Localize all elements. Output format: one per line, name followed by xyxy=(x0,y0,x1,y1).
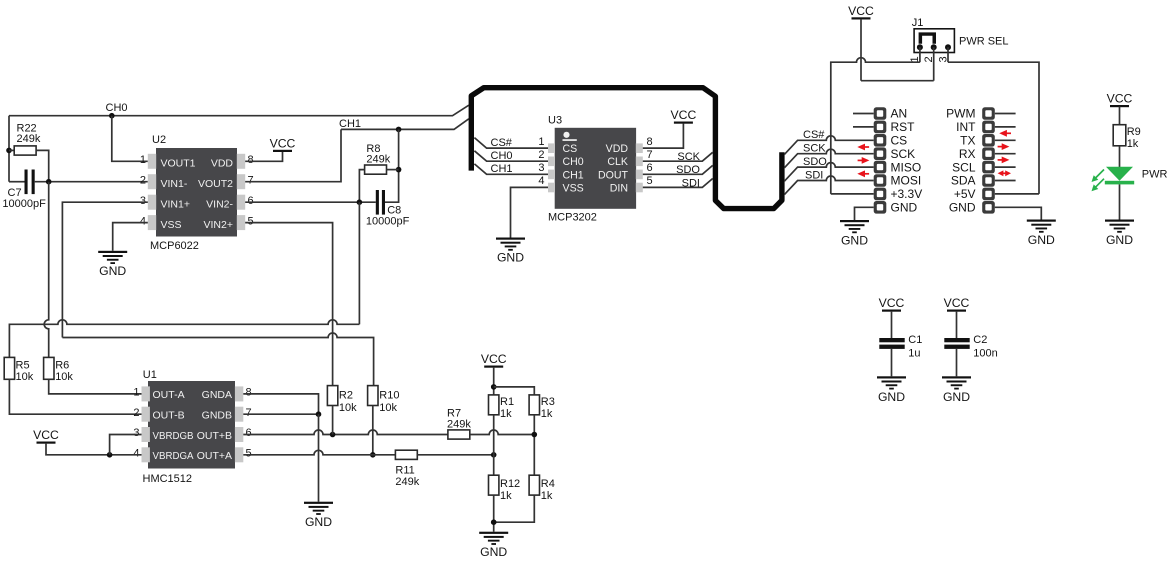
svg-text:CS: CS xyxy=(891,134,908,148)
junction VBRDG xyxy=(107,452,113,458)
svg-text:7: 7 xyxy=(248,174,254,186)
wire C1 to GND xyxy=(891,349,893,376)
wire U2 pin3 VIN1+ left down xyxy=(62,202,147,337)
wire CH1 from bus to U3 pin3 xyxy=(474,164,548,174)
svg-text:GND: GND xyxy=(841,234,868,248)
header HD1 left pads xyxy=(874,107,887,213)
arrow MISO out xyxy=(858,157,870,164)
wire GND net down xyxy=(318,414,320,502)
svg-text:CH0: CH0 xyxy=(563,156,584,168)
svg-text:VOUT2: VOUT2 xyxy=(198,178,233,190)
junction R8 right xyxy=(396,167,402,173)
bus SPI thick xyxy=(471,88,782,209)
svg-text:MCP3202: MCP3202 xyxy=(548,212,597,224)
junction VIN2- node xyxy=(357,199,363,205)
svg-text:SDI: SDI xyxy=(805,169,823,181)
svg-text:8: 8 xyxy=(246,387,252,399)
svg-text:VBRDGB: VBRDGB xyxy=(153,430,194,442)
arrow TX (right) xyxy=(998,143,1010,150)
svg-text:VCC: VCC xyxy=(1107,92,1133,106)
wire U1 pin8 GNDA down xyxy=(243,394,318,414)
ground U2 xyxy=(98,251,127,264)
wire VCC down to lower rail xyxy=(860,19,862,81)
resistor R7 xyxy=(448,430,470,439)
svg-text:VCC: VCC xyxy=(848,4,874,18)
svg-text:SCL: SCL xyxy=(952,160,976,174)
svg-text:249k: 249k xyxy=(447,419,471,431)
ground U1 xyxy=(304,502,333,515)
ground C1 xyxy=(877,376,906,389)
svg-text:PWR: PWR xyxy=(1142,169,1168,181)
svg-text:CH1: CH1 xyxy=(491,163,513,175)
arrow INT out (left) xyxy=(999,130,1011,137)
svg-text:3: 3 xyxy=(133,427,139,439)
wire R22 left xyxy=(9,149,14,151)
SECTION: adc bus xyxy=(471,88,873,265)
junction GND net xyxy=(316,411,322,417)
wire VCC to R9 xyxy=(1119,107,1121,125)
svg-text:VIN1-: VIN1- xyxy=(161,178,188,190)
svg-text:10k: 10k xyxy=(16,371,34,383)
arrow SCL (both) xyxy=(998,170,1011,176)
wire R3 bottom to R4 top xyxy=(533,415,535,475)
wire U3 pin5 SDI to bus xyxy=(643,179,713,188)
svg-text:AN: AN xyxy=(891,107,908,121)
arrow MOSI in xyxy=(857,170,869,177)
svg-text:R9: R9 xyxy=(1127,126,1141,138)
resistor R8 xyxy=(365,165,387,174)
wire vertical C7 node down to R6 (hop at y=324.3) xyxy=(44,182,49,358)
svg-text:OUT-B: OUT-B xyxy=(153,410,185,422)
wire VCC to C1 xyxy=(891,311,893,338)
svg-text:PWM: PWM xyxy=(946,107,975,121)
svg-text:4: 4 xyxy=(140,215,146,227)
svg-text:R5: R5 xyxy=(16,360,30,372)
svg-text:VOUT1: VOUT1 xyxy=(161,158,196,170)
svg-text:MCP6022: MCP6022 xyxy=(150,240,199,252)
capacitor C2 xyxy=(944,338,969,342)
wire C2 to GND xyxy=(956,349,958,376)
svg-text:VDD: VDD xyxy=(211,158,234,170)
wire VCC to U1 pin4 xyxy=(46,443,142,455)
wire U1 pin5 OUT+A to R11 (hop at 318.5) xyxy=(243,450,395,455)
junction R22 left xyxy=(6,148,12,154)
svg-text:5: 5 xyxy=(248,215,254,227)
svg-text:10000pF: 10000pF xyxy=(2,198,46,210)
resistor R4 xyxy=(529,475,539,495)
J1 pin 3 pad xyxy=(945,44,951,50)
LED PWR cathode bar xyxy=(1105,181,1134,185)
svg-text:GND: GND xyxy=(878,390,905,404)
svg-text:C2: C2 xyxy=(973,334,987,346)
wire J1 pin2 down xyxy=(933,47,935,80)
svg-text:1k: 1k xyxy=(500,408,512,420)
wire VCC to C2 xyxy=(956,311,958,338)
resistor R11 xyxy=(395,450,417,459)
capacitor C7 xyxy=(25,170,28,195)
wire PWM stub xyxy=(995,113,1016,115)
svg-text:MISO: MISO xyxy=(891,160,922,174)
LED PWR triangle xyxy=(1106,167,1133,181)
junction R10 bottom xyxy=(370,452,376,458)
wire 3.3V to pad xyxy=(831,193,874,195)
ground LED xyxy=(1105,220,1134,233)
svg-text:SCK: SCK xyxy=(677,151,700,163)
wire R1 bottom to R12 top xyxy=(493,415,495,475)
svg-text:10k: 10k xyxy=(55,371,73,383)
svg-text:SDI: SDI xyxy=(682,177,700,189)
svg-text:R11: R11 xyxy=(395,465,414,477)
wire RX stub xyxy=(995,153,1016,155)
wire HD1 GND to ground xyxy=(855,207,874,220)
svg-text:DIN: DIN xyxy=(610,182,628,194)
J1 pin 1 pad xyxy=(917,44,923,50)
svg-text:CH0: CH0 xyxy=(491,150,513,162)
SECTION: headers right xyxy=(831,4,1056,248)
svg-text:SDO: SDO xyxy=(803,156,827,168)
svg-text:SDO: SDO xyxy=(676,164,700,176)
resistor R3 xyxy=(529,395,539,415)
wire U2 pin4 VSS to GND xyxy=(113,223,148,251)
LED light arrow 2 xyxy=(1092,179,1105,192)
junction R2 bottom xyxy=(330,432,336,438)
J1 pin 2 pad xyxy=(931,44,937,50)
svg-text:GNDB: GNDB xyxy=(202,410,232,422)
svg-text:+3.3V: +3.3V xyxy=(891,187,923,201)
svg-text:1: 1 xyxy=(140,154,146,166)
wire VCC branch to U1 pin3 xyxy=(110,435,142,455)
svg-text:GND: GND xyxy=(943,390,970,404)
svg-text:VSS: VSS xyxy=(563,182,584,194)
svg-text:7: 7 xyxy=(246,407,252,419)
junction R1R12 node xyxy=(491,452,497,458)
svg-text:249k: 249k xyxy=(366,153,390,165)
svg-text:+5V: +5V xyxy=(954,187,976,201)
wire TX stub xyxy=(995,139,1016,141)
wire 5V to pad xyxy=(995,193,1039,195)
junction R12/R4 bottom xyxy=(491,519,497,525)
power VCC (J1) xyxy=(852,17,871,19)
svg-text:4: 4 xyxy=(133,448,139,460)
svg-text:VIN1+: VIN1+ xyxy=(161,198,190,210)
svg-text:VSS: VSS xyxy=(161,219,182,231)
svg-text:CLK: CLK xyxy=(607,156,628,168)
wire CH0 horizontal xyxy=(9,105,469,116)
wire C7 row xyxy=(9,181,25,183)
svg-text:GND: GND xyxy=(891,201,918,215)
wire U1 pin6 OUT+B to R7 (hops at 318.5 and 372.8) xyxy=(243,430,448,435)
svg-text:CH1: CH1 xyxy=(563,169,584,181)
svg-text:GND: GND xyxy=(497,251,524,265)
power VCC (divider) xyxy=(484,366,503,368)
SECTION: amplifier left xyxy=(2,102,468,386)
power VCC (U1 bridge) xyxy=(37,442,56,444)
wire SDA stub xyxy=(995,180,1016,182)
svg-text:8: 8 xyxy=(647,136,653,148)
wire U2 pin7 VOUT2 to CH1 xyxy=(245,129,341,181)
wire R5 bottom to U1 pin2 xyxy=(9,379,141,414)
wire R11 right to R1R12 node xyxy=(417,454,493,456)
LED light arrow 1 xyxy=(1092,170,1105,183)
wire CS# bus to header xyxy=(784,136,873,155)
wire U2 pin5 VIN2+ right down to R2 xyxy=(245,223,332,386)
wire horizontal2 VIN1+ net (hop at 332.6) to R10 xyxy=(62,333,373,386)
wire U3 pin8 VDD to VCC xyxy=(643,124,684,149)
wire SCK bus to header xyxy=(784,149,873,168)
wire U3 pin6 SDO to bus xyxy=(643,165,713,174)
svg-text:RX: RX xyxy=(959,147,976,161)
SECTION: bridge bottom xyxy=(4,352,555,559)
svg-text:R2: R2 xyxy=(339,390,353,402)
wire CH1 horizontal xyxy=(341,119,469,130)
adc U3 body xyxy=(555,128,636,209)
header HD2 right pads xyxy=(982,107,995,213)
wire SDI bus to header xyxy=(784,176,873,195)
U1 pin stubs left xyxy=(142,386,150,401)
svg-text:GNDA: GNDA xyxy=(202,389,232,401)
svg-text:INT: INT xyxy=(956,120,976,134)
svg-text:VCC: VCC xyxy=(671,108,697,122)
svg-text:4: 4 xyxy=(538,175,544,187)
wire C7 right to U2 pin2 xyxy=(35,181,148,183)
wire U3 pin4 VSS to GND xyxy=(511,187,549,237)
resistor R5 xyxy=(4,357,14,379)
svg-text:VCC: VCC xyxy=(33,428,59,442)
wire left vertical CH0 to R22/C7 xyxy=(8,116,10,182)
wire LED to GND xyxy=(1119,184,1121,219)
SECTION: misc right xyxy=(877,92,1168,404)
wire R4 bottom to GND xyxy=(494,495,535,522)
wire rail 5V xyxy=(948,62,1039,194)
svg-text:100n: 100n xyxy=(973,348,997,360)
U2 pin stubs right xyxy=(237,154,245,169)
U3 pin stubs left xyxy=(548,143,555,153)
svg-text:VDD: VDD xyxy=(606,143,629,155)
junction CH0/VOUT1 xyxy=(109,113,115,119)
U3 pin stubs right xyxy=(636,143,643,153)
svg-text:DOUT: DOUT xyxy=(598,169,629,181)
resistor R22 xyxy=(14,146,36,155)
ground U3 xyxy=(496,238,525,251)
svg-text:10k: 10k xyxy=(379,402,397,414)
svg-text:OUT-A: OUT-A xyxy=(153,389,185,401)
svg-text:PWR SEL: PWR SEL xyxy=(959,36,1009,48)
svg-text:CH1: CH1 xyxy=(339,118,361,130)
wire R3 top branch xyxy=(494,387,535,395)
svg-text:R4: R4 xyxy=(541,478,555,490)
svg-text:1k: 1k xyxy=(1127,138,1139,150)
svg-text:8: 8 xyxy=(248,154,254,166)
svg-text:MOSI: MOSI xyxy=(891,174,922,188)
svg-text:2: 2 xyxy=(538,149,544,161)
svg-text:R1: R1 xyxy=(500,396,514,408)
svg-text:SDA: SDA xyxy=(951,174,976,188)
wire R9 to LED xyxy=(1119,146,1121,167)
svg-text:GND: GND xyxy=(1028,233,1055,247)
resistor R12 xyxy=(489,475,499,495)
svg-text:249k: 249k xyxy=(395,476,419,488)
wire U3 pin7 SCK to bus xyxy=(643,152,713,161)
svg-text:CS#: CS# xyxy=(491,137,513,149)
wire horizontal1 VIN2- net (hops at 62.4 and 332.6) xyxy=(9,320,359,358)
U3 pin1 marker dot xyxy=(563,132,569,138)
wire AN stub xyxy=(853,113,874,115)
power VCC (U3 VDD) xyxy=(674,122,693,124)
ground HD1 xyxy=(840,220,869,233)
svg-text:1u: 1u xyxy=(908,348,920,360)
svg-text:CS: CS xyxy=(563,143,578,155)
junction R3/R4 mid xyxy=(532,432,538,438)
svg-text:GND: GND xyxy=(1106,233,1133,247)
svg-text:U2: U2 xyxy=(152,134,166,146)
ground C2 xyxy=(942,376,971,389)
svg-text:6: 6 xyxy=(647,162,653,174)
arrow RX (right) xyxy=(998,157,1010,164)
U1 pin stubs right xyxy=(235,386,243,401)
svg-text:GND: GND xyxy=(305,515,332,529)
wire HD2 GND to ground xyxy=(995,207,1042,219)
wire J1 pin1 down xyxy=(919,47,921,62)
bridge U1 body xyxy=(148,381,235,469)
wire R8 right xyxy=(387,169,399,171)
connector J1 box xyxy=(914,29,954,53)
svg-text:7: 7 xyxy=(647,149,653,161)
svg-text:R12: R12 xyxy=(500,478,520,490)
wire U2 pin6 VIN2- to C8 xyxy=(245,201,376,203)
wire U2 pin8 to VCC xyxy=(245,152,282,161)
svg-text:VIN2-: VIN2- xyxy=(206,198,233,210)
svg-text:1k: 1k xyxy=(541,490,553,502)
svg-text:VCC: VCC xyxy=(879,296,905,310)
power VCC (C1) xyxy=(882,310,901,312)
resistor R6 xyxy=(44,357,54,379)
svg-text:3: 3 xyxy=(538,162,544,174)
resistor R1 xyxy=(489,395,499,415)
svg-text:GND: GND xyxy=(949,201,976,215)
junction R1/R3 top xyxy=(491,384,497,390)
arrow SCK in xyxy=(857,144,869,151)
wire R22 right down xyxy=(36,150,49,181)
wire CH1 down to R8/C8 right xyxy=(385,129,399,202)
wire VIN2- node down to horizontal1 xyxy=(358,202,360,324)
svg-text:5: 5 xyxy=(647,175,653,187)
wire SDO bus to header xyxy=(784,163,873,182)
svg-text:VCC: VCC xyxy=(944,296,970,310)
svg-text:GND: GND xyxy=(99,264,126,278)
svg-text:249k: 249k xyxy=(17,133,41,145)
svg-text:VCC: VCC xyxy=(481,352,507,366)
svg-text:GND: GND xyxy=(480,545,507,559)
wire R7 right to R3R4 node (hop at 493.7) xyxy=(470,430,535,435)
power VCC (C2) xyxy=(947,310,966,312)
svg-text:RST: RST xyxy=(891,120,916,134)
svg-text:OUT+B: OUT+B xyxy=(197,430,232,442)
svg-text:U1: U1 xyxy=(143,369,157,381)
svg-text:10000pF: 10000pF xyxy=(366,216,410,228)
svg-text:U3: U3 xyxy=(548,115,562,127)
svg-text:VIN2+: VIN2+ xyxy=(204,219,233,231)
svg-text:J1: J1 xyxy=(912,17,924,29)
svg-text:1k: 1k xyxy=(541,408,553,420)
wire RST stub xyxy=(853,126,874,128)
svg-text:1: 1 xyxy=(538,136,544,148)
resistor R2 xyxy=(327,386,337,406)
svg-text:CS#: CS# xyxy=(803,129,825,141)
U2 pin stubs left xyxy=(148,154,156,169)
power VCC (R9) xyxy=(1110,105,1129,107)
ground divider xyxy=(479,532,508,545)
resistor R10 xyxy=(368,386,378,406)
junction CH1/R8C8 xyxy=(396,127,402,133)
svg-text:TX: TX xyxy=(960,134,975,148)
svg-text:6: 6 xyxy=(246,427,252,439)
wire R2 bottom xyxy=(332,406,334,435)
power VCC (U2 VDD) xyxy=(273,150,292,152)
resistor R9 xyxy=(1113,125,1126,146)
wire J1 pin3 down xyxy=(947,47,949,62)
svg-text:VCC: VCC xyxy=(270,136,296,150)
svg-text:3: 3 xyxy=(140,195,146,207)
svg-text:10k: 10k xyxy=(339,402,357,414)
J1 jumper bracket xyxy=(919,32,936,43)
capacitor C8 xyxy=(376,190,379,215)
capacitor C1 xyxy=(879,338,904,342)
wire R6 bottom to U1 pin1 xyxy=(49,379,142,394)
svg-text:1: 1 xyxy=(133,387,139,399)
svg-text:CH0: CH0 xyxy=(106,102,128,114)
wire CS# from bus to U3 pin1 xyxy=(474,138,548,149)
wire U1 pin7 GNDB xyxy=(243,413,318,415)
svg-text:1k: 1k xyxy=(500,490,512,502)
svg-text:2: 2 xyxy=(133,407,139,419)
svg-text:OUT+A: OUT+A xyxy=(197,450,232,462)
wire rail 3.3V (hop at 861) xyxy=(831,58,920,194)
svg-text:5: 5 xyxy=(246,448,252,460)
svg-text:VBRDGA: VBRDGA xyxy=(153,450,194,462)
ground HD2 xyxy=(1027,220,1056,233)
svg-text:C8: C8 xyxy=(387,204,401,216)
svg-text:6: 6 xyxy=(248,195,254,207)
wire R12 bottom to GND xyxy=(493,495,495,532)
wire R8 left down xyxy=(359,170,364,203)
svg-text:SCK: SCK xyxy=(891,147,916,161)
svg-text:R6: R6 xyxy=(55,360,69,372)
wire VCC rail to J1 pin2 xyxy=(861,80,934,82)
svg-text:HMC1512: HMC1512 xyxy=(143,473,193,485)
wire CH0 to U2 pin1 xyxy=(112,116,148,162)
wire R10 bottom to OUT+A xyxy=(372,406,374,455)
wire INT stub xyxy=(995,126,1016,128)
wire VCC down to R1 top xyxy=(493,367,495,395)
svg-text:SCK: SCK xyxy=(803,143,826,155)
svg-text:R3: R3 xyxy=(541,396,555,408)
wire SCL stub xyxy=(995,166,1016,168)
svg-text:C1: C1 xyxy=(908,334,922,346)
op-amp U2 body xyxy=(156,148,237,237)
svg-text:R10: R10 xyxy=(379,390,399,402)
junction C7/R22/down xyxy=(46,179,52,185)
svg-text:2: 2 xyxy=(140,174,146,186)
wire CH0 from bus to U3 pin2 xyxy=(474,151,548,161)
